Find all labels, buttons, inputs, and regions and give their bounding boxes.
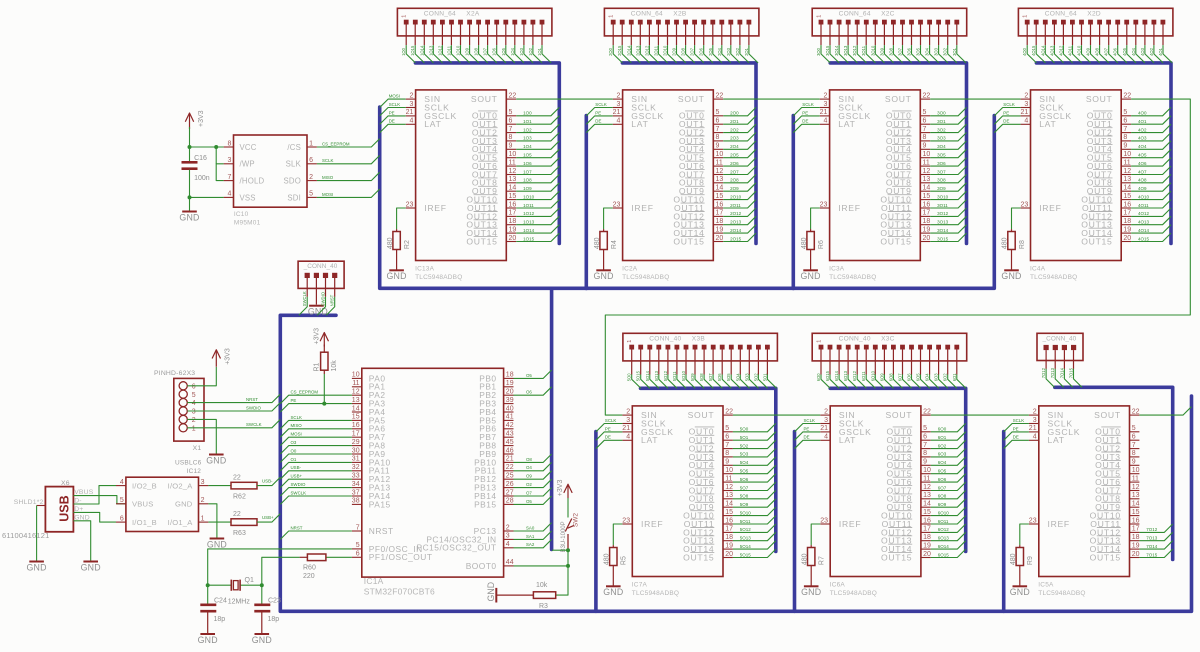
svg-text:1O11: 1O11 [523,203,534,208]
ground below R2 [387,250,407,282]
svg-text:OUT15: OUT15 [673,236,704,246]
svg-text:3: 3 [616,101,620,108]
svg-text:8: 8 [923,450,927,457]
wire 2O8 [686,45,695,63]
svg-text:+3V3: +3V3 [313,328,320,345]
svg-text:6O12: 6O12 [938,527,950,532]
junction C16/GND wire [188,195,192,199]
wire 3O13 [930,216,966,224]
svg-text:1: 1 [627,340,633,343]
svg-text:4O7: 4O7 [1104,47,1109,56]
wire 2O0 [723,107,756,115]
svg-text:TLC5948ADBQ: TLC5948ADBQ [830,590,877,597]
svg-text:5O3: 5O3 [740,452,749,457]
switch SW2 B3U-1000P [561,513,580,553]
wire SCLK to IC7A [596,424,623,432]
bus: left of IC7A [594,432,598,612]
svg-text:SWCLK: SWCLK [246,422,262,427]
svg-text:1O14: 1O14 [419,45,424,56]
svg-text:5O0: 5O0 [740,427,749,432]
wire PE to IC3A [793,116,819,124]
svg-text:15: 15 [509,193,517,200]
svg-text:7: 7 [725,442,729,449]
wire 3O1 [957,45,966,63]
svg-text:5O0: 5O0 [627,373,632,382]
svg-text:1O3: 1O3 [523,136,532,141]
resistor R8 480 [1002,208,1026,250]
wire 6O7 [903,375,912,389]
svg-text:5O7: 5O7 [708,373,713,382]
svg-text:3O0: 3O0 [816,47,821,56]
svg-text:6O9: 6O9 [879,373,884,382]
svg-text:SHLD1*2: SHLD1*2 [14,499,44,506]
svg-text:13: 13 [509,176,517,183]
bus: under connector X2B [622,63,756,244]
wire 6O13 [848,375,857,389]
wire 2O14 [631,45,640,63]
wire R60 to crystal right node [262,557,300,585]
ground below USB shield [36,561,38,563]
wire 4O4 [1131,141,1171,149]
svg-text:4O10: 4O10 [1138,194,1150,199]
svg-text:OUT15: OUT15 [1090,552,1121,562]
svg-text:NRST: NRST [246,397,258,402]
junction R1/PA3 [322,402,326,406]
svg-text:MOSI: MOSI [291,432,302,437]
wire 5O5 [733,465,776,473]
ground below R5 [603,566,623,598]
svg-text:19: 19 [923,542,931,549]
svg-text:TLC5948ADBQ: TLC5948ADBQ [1038,590,1085,597]
svg-text:SCLK: SCLK [1003,102,1015,107]
svg-text:6O7: 6O7 [938,485,947,490]
wire 5O15 [733,549,776,557]
wire /WP + /HOLD tie [216,164,223,181]
wire 4O1 [1163,45,1172,63]
svg-text:3: 3 [201,479,205,486]
svg-text:5O5: 5O5 [726,373,731,382]
svg-text:5O13: 5O13 [740,536,752,541]
svg-text:2O15: 2O15 [730,236,742,241]
svg-text:1O11: 1O11 [446,45,451,56]
svg-text:15: 15 [923,193,931,200]
svg-text:10: 10 [1123,151,1131,158]
svg-text:2O11: 2O11 [730,203,741,208]
svg-text:16: 16 [725,517,733,524]
junction VCC/C16 [188,145,192,149]
svg-text:7: 7 [716,126,720,133]
wire 5O7 [733,482,776,490]
svg-text:5O15: 5O15 [636,370,641,381]
wire 6O12 [931,524,966,532]
svg-text:18: 18 [923,534,931,541]
svg-text:220: 220 [303,573,315,580]
svg-text:6O8: 6O8 [938,494,947,499]
wire 7O13 [1139,532,1172,540]
svg-text:4O9: 4O9 [1138,186,1147,191]
svg-text:480: 480 [594,237,601,249]
svg-text:12: 12 [716,168,724,175]
svg-text:480: 480 [801,237,808,249]
svg-text:LAT: LAT [424,119,441,129]
svg-text:6O14: 6O14 [938,544,950,549]
wire 4O14 [1045,45,1054,63]
wire R1 to PA3 net [323,374,325,404]
wire 3O7 [903,45,912,63]
wire 2O9 [723,183,756,191]
wire 3O11 [930,200,966,208]
svg-text:GND: GND [603,587,623,597]
svg-text:4O1: 4O1 [1158,47,1163,56]
svg-text:61100416121: 61100416121 [2,531,50,540]
wire SCLK to IC13A [380,108,406,116]
svg-text:23: 23 [1029,517,1037,524]
svg-text:39: 39 [506,397,514,404]
svg-text:19: 19 [1132,542,1140,549]
svg-text:12: 12 [352,389,360,396]
wire 2O10 [668,45,677,63]
svg-text:5O12: 5O12 [740,527,752,532]
ground below R4 [594,250,614,282]
svg-text:5O1: 5O1 [762,373,767,382]
wire 4O0 [1131,107,1171,115]
svg-text:OUT15: OUT15 [466,236,497,246]
wire 4O15 [1036,45,1045,63]
svg-text:14: 14 [923,501,931,508]
bus: under connector X2C [830,63,966,244]
svg-text:3O9: 3O9 [937,186,946,191]
svg-text:13: 13 [923,176,931,183]
wire 1O14 [424,45,433,63]
svg-text:6O13: 6O13 [938,536,950,541]
svg-text:7: 7 [227,174,231,181]
svg-text:17: 17 [1132,526,1140,533]
wire SWCLK [299,297,307,316]
resistor R7 480 [801,524,825,566]
wire 2O11 [723,200,756,208]
wire 4O7 [1109,45,1118,63]
wire 1O13 [516,216,559,224]
wire 6O1 [957,375,966,389]
svg-text:PE: PE [605,426,611,431]
svg-text:2O0: 2O0 [730,111,739,116]
svg-text:GND: GND [801,587,821,597]
svg-text:3O14: 3O14 [937,228,949,233]
wire MISO from IC10 [317,172,380,180]
svg-text:4O0: 4O0 [1022,47,1027,56]
svg-text:6O5: 6O5 [916,373,921,382]
svg-text:GND: GND [801,271,821,281]
wire 2O10 [723,191,756,199]
wire 6O2 [931,440,966,448]
capacitor C23 18p [254,585,281,623]
wire 6O14 [839,375,848,389]
svg-text:IREF: IREF [1039,203,1061,213]
wire USB+ to bus [257,514,280,522]
svg-text:2O15: 2O15 [617,45,622,56]
wire 1O15 [516,233,559,241]
wire 6O2 [948,375,957,389]
ground below R9 [1010,566,1030,598]
svg-text:VSS: VSS [240,193,256,202]
wire 2O9 [677,45,686,63]
svg-text:11: 11 [1132,475,1139,482]
svg-text:LAT: LAT [631,119,648,129]
svg-text:2O2: 2O2 [730,127,739,132]
svg-text:31: 31 [352,456,360,463]
svg-text:R62: R62 [233,493,246,500]
svg-text:6O2: 6O2 [938,443,947,448]
svg-text:6O9: 6O9 [938,502,947,507]
svg-text:3O13: 3O13 [937,220,949,225]
svg-text:22: 22 [923,92,931,99]
wire 5O12 [668,375,677,389]
connector X2D CONN_64 [1018,8,1173,45]
svg-text:CONN_64: CONN_64 [839,11,871,18]
wire 4O5 [1131,149,1171,157]
svg-text:16: 16 [923,201,931,208]
wire 4O13 [1131,216,1171,224]
wire 1O4 [516,141,559,149]
ground below C24 [207,613,209,635]
svg-text:6O11: 6O11 [938,519,949,524]
svg-text:21: 21 [1021,109,1029,116]
svg-text:3O8: 3O8 [888,47,893,56]
svg-text:5O9: 5O9 [740,502,749,507]
wire 6O9 [931,499,966,507]
svg-text:3O1: 3O1 [937,119,946,124]
IC IC2A TLC5948ADBQ [613,90,724,281]
wire 6O8 [893,375,902,389]
ground below C16 [189,211,191,213]
wire 1O3 [524,45,533,63]
ground at connector pin [308,306,328,317]
svg-text:TLC5948ADBQ: TLC5948ADBQ [632,590,679,597]
wire 2O7 [695,45,704,63]
svg-text:B3U-1000P: B3U-1000P [561,521,567,552]
svg-text:13: 13 [1132,492,1140,499]
svg-text:4O8: 4O8 [1095,47,1100,56]
svg-text:IC12: IC12 [187,468,202,475]
svg-text:4O6: 4O6 [1138,161,1147,166]
wire DE to IC13A [380,124,406,132]
wire 2O3 [731,45,740,63]
wire SOUT IC6A to SIN IC5A [931,414,1029,416]
svg-text:3: 3 [506,533,510,540]
wire 2O8 [723,174,756,182]
resistor R9 480 [1010,524,1034,566]
svg-text:21: 21 [820,425,828,432]
svg-text:14: 14 [352,405,360,412]
wire SOUT IC13A to SIN IC2A [516,98,613,100]
svg-text:6: 6 [356,551,360,558]
wire 6O10 [875,375,884,389]
wire VSS row [190,196,224,198]
svg-text:19: 19 [716,226,724,233]
svg-text:MOSI: MOSI [389,94,400,99]
svg-text:X2B: X2B [673,11,687,18]
crystal Q1 12MHz [208,577,262,605]
svg-text:3O2: 3O2 [937,127,946,132]
wire 3O2 [948,45,957,63]
IC IC7A TLC5948ADBQ [622,406,733,597]
svg-text:2O13: 2O13 [635,45,640,56]
bus: main loop (left vertical, bottom horizontal, right vertical) [280,315,1191,611]
svg-text:C16: C16 [194,155,207,162]
svg-text:X2D: X2D [1087,11,1101,18]
svg-text:13: 13 [1123,176,1131,183]
supply +3V3 above X1 [215,351,217,367]
wire 5O4 [733,457,776,465]
svg-text:4: 4 [409,118,413,125]
svg-text:4: 4 [120,479,124,486]
svg-text:2O3: 2O3 [726,47,731,56]
wire 7O14 [1064,369,1072,387]
wire MOSI to PA7 [280,437,352,445]
svg-text:PC15/OSC32_OUT: PC15/OSC32_OUT [417,543,497,553]
svg-text:LAT: LAT [838,119,855,129]
svg-text:2O6: 2O6 [730,161,739,166]
svg-text:4O13: 4O13 [1049,45,1054,56]
svg-text:23: 23 [406,201,414,208]
svg-text:1O2: 1O2 [528,47,533,56]
svg-text:27: 27 [506,489,514,496]
svg-text:4O8: 4O8 [1138,178,1147,183]
junction crystal left [206,583,210,587]
svg-text:4O2: 4O2 [1149,47,1154,56]
svg-text:PE: PE [802,110,808,115]
wire 3O8 [893,45,902,63]
svg-text:11: 11 [923,475,930,482]
svg-text:7: 7 [1132,442,1136,449]
svg-text:7O13: 7O13 [1050,367,1055,378]
svg-text:GND: GND [206,455,226,465]
svg-text:23: 23 [1021,201,1029,208]
svg-text:3O15: 3O15 [825,45,830,56]
wire 2O4 [723,141,756,149]
wire 1O3 [516,133,559,141]
svg-text:IC7A: IC7A [632,582,648,589]
svg-text:9: 9 [1123,143,1127,150]
svg-text:18: 18 [1132,534,1140,541]
svg-text:22: 22 [233,474,241,481]
svg-text:_CONN_40: _CONN_40 [1042,335,1077,342]
wire 3O9 [930,183,966,191]
svg-text:21: 21 [406,109,414,116]
supply +3V3 above R1 [323,334,325,347]
wire 2O13 [723,216,756,224]
svg-text:SCLK: SCLK [389,102,401,107]
svg-text:O5: O5 [526,373,532,378]
ground below R8 [1001,250,1021,282]
svg-text:R3: R3 [539,603,548,610]
bus: section B left vertical [584,116,588,289]
svg-text:CS_EEPROM: CS_EEPROM [291,390,319,395]
wire 5O0 [632,375,641,389]
wire SCLK to PA5 [280,420,352,428]
wire 3O0 [930,107,966,115]
svg-text:20: 20 [506,389,514,396]
svg-text:PB15: PB15 [474,499,497,509]
wire SCLK to IC5A [1004,424,1029,432]
svg-text:1O14: 1O14 [523,228,535,233]
svg-text:25: 25 [506,473,514,480]
svg-text:3O9: 3O9 [879,47,884,56]
wire OSC_OUT from PF1 to R60 [326,556,352,558]
ground below C23 [261,613,263,635]
svg-text:12: 12 [509,168,517,175]
svg-text:23: 23 [622,517,630,524]
wire 2O2 [723,124,756,132]
svg-text:SA2: SA2 [526,542,535,547]
wire 4O12 [1131,208,1171,216]
wire 3O11 [866,45,875,63]
wire 6O6 [912,375,921,389]
svg-text:2O4: 2O4 [730,144,739,149]
svg-text:/CS: /CS [287,143,301,152]
svg-text:PF1/OSC_OUT: PF1/OSC_OUT [369,552,433,562]
wire D- to IC12 [73,486,116,504]
wire 6O1 [931,432,966,440]
wire 3O5 [930,149,966,157]
svg-text:GND: GND [594,271,614,281]
svg-text:3O15: 3O15 [937,236,949,241]
wire 3O12 [930,208,966,216]
IC IC4A TLC5948ADBQ [1021,90,1132,281]
svg-text:14: 14 [1132,501,1140,508]
svg-text:12: 12 [923,484,931,491]
IC IC13A TLC5948ADBQ [406,90,517,281]
wire 5O8 [704,375,713,389]
svg-text:1O1: 1O1 [537,47,542,56]
wire 5O6 [722,375,731,389]
wire 6O15 [931,549,966,557]
wire 5O10 [733,507,776,515]
svg-text:13: 13 [352,397,360,404]
svg-text:4O3: 4O3 [1138,136,1147,141]
svg-text:34: 34 [352,481,360,488]
svg-text:5O10: 5O10 [681,370,686,381]
wire 5O11 [733,516,776,524]
wire 1O0 [516,107,559,115]
svg-text:GND: GND [179,212,199,222]
wire 4O6 [1131,158,1171,166]
svg-text:R4: R4 [611,240,618,249]
svg-text:C24: C24 [214,597,227,604]
svg-text:6: 6 [725,434,729,441]
svg-text:4O15: 4O15 [1031,45,1036,56]
svg-text:28: 28 [506,498,514,505]
svg-text:2O14: 2O14 [626,45,631,56]
svg-text:1: 1 [816,340,822,343]
svg-text:18: 18 [716,218,724,225]
wire 1O4 [515,45,524,63]
svg-text:32: 32 [352,464,360,471]
svg-text:R63: R63 [233,530,246,537]
svg-text:2: 2 [192,417,196,424]
svg-text:26: 26 [506,481,514,488]
wire 4O5 [1127,45,1136,63]
svg-text:5O6: 5O6 [740,477,749,482]
wire SWDIO [317,297,325,316]
supply +3V3 above SW2 [567,486,569,499]
wire 2O12 [723,208,756,216]
svg-text:12: 12 [1123,168,1131,175]
wire 3O14 [930,225,966,233]
svg-text:PE: PE [291,398,297,403]
svg-text:CONN_64: CONN_64 [424,11,456,18]
svg-text:4O2: 4O2 [1138,127,1147,132]
